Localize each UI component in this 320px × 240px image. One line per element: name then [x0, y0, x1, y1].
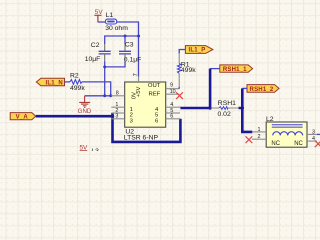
svg-text:LTSR 6-NP: LTSR 6-NP — [124, 134, 159, 141]
pin 1 (left) — [111, 106, 124, 108]
svg-text:0.1μF: 0.1μF — [124, 57, 142, 64]
transformer L2 body — [266, 116, 307, 147]
port RSH1_2 — [247, 85, 279, 93]
wire R2 to ground rail — [82, 82, 111, 96]
port IL1_N — [36, 78, 64, 86]
wire pin2/pin3 tie down around to pin 6 (thick U) — [113, 113, 181, 142]
svg-text:499k: 499k — [70, 85, 85, 92]
svg-text:OUT: OUT — [148, 83, 161, 89]
svg-text:9: 9 — [170, 83, 173, 89]
node junction (125,36) — [124, 35, 127, 38]
pin 8 (left, gray) — [111, 95, 124, 97]
wire L2 pin 3 off page — [317, 133, 320, 135]
no-connect X on L2 pin 4 — [315, 140, 320, 147]
pin 10 (right, gray) — [166, 93, 180, 95]
port IL1_P — [185, 46, 213, 54]
svg-text:IL1_N: IL1_N — [46, 80, 63, 86]
L2 pin 1 — [252, 131, 266, 133]
svg-text:NC: NC — [271, 141, 280, 147]
wire L1 out, corner down to pin 7 — [117, 22, 139, 77]
wire R1 bottom to pin 9 — [178, 73, 180, 87]
svg-text:V_A: V_A — [16, 114, 29, 120]
node junction (104.7,95.8) — [103, 94, 106, 97]
svg-text:30 ohm: 30 ohm — [105, 25, 128, 32]
node junction (104.7,66.9) — [103, 65, 106, 68]
ground GND — [78, 96, 92, 115]
svg-text:2: 2 — [258, 134, 261, 140]
svg-text:4: 4 — [312, 136, 315, 142]
svg-text:NC: NC — [294, 141, 303, 147]
svg-text:1: 1 — [258, 127, 261, 133]
svg-text:10: 10 — [170, 89, 176, 95]
svg-text:0V: 0V — [131, 92, 137, 99]
L2 pin 2 — [252, 138, 266, 140]
inductor L1 — [105, 12, 128, 32]
wire RSH1_1 to shunt junction — [210, 68, 220, 70]
svg-text:5V: 5V — [80, 145, 89, 151]
pin 5 (right) — [166, 112, 180, 114]
pin 3 (left) — [111, 118, 124, 120]
wire C3 top lead — [124, 36, 126, 44]
no-connect X on L2 pin 2 — [246, 136, 253, 143]
capacitor C2 — [85, 42, 111, 63]
wire pin 4 to shunt (thick) — [180, 107, 210, 110]
wire IL1_N to R2 — [65, 81, 71, 83]
node junction (210.1,107.4) — [208, 106, 211, 109]
port V_A — [10, 113, 36, 121]
wire C3 bottom jog to C2 lead — [124, 54, 126, 62]
svg-text:3: 3 — [312, 129, 315, 135]
svg-text:7: 7 — [133, 73, 139, 76]
svg-text:R2: R2 — [70, 72, 79, 79]
wire IL1_P to R1 — [179, 50, 185, 54]
node junction (110.7,95.8) — [109, 94, 112, 97]
svg-text:6: 6 — [170, 114, 173, 120]
svg-text:C3: C3 — [125, 42, 134, 49]
resistor RSH1 0.02 — [211, 100, 239, 118]
pin 2 (left) — [111, 112, 124, 114]
svg-text:RSH1_2: RSH1_2 — [250, 87, 274, 93]
wire V_A to IC pins (thick) — [36, 115, 113, 118]
wire RSH1_2 down to shunt output — [242, 87, 247, 89]
power 5V (top) — [94, 9, 103, 22]
node junction (112.4,115.8) — [111, 115, 114, 118]
svg-text:3: 3 — [115, 114, 118, 120]
svg-text:0.02: 0.02 — [218, 111, 231, 118]
pin 9 (right, gray) — [166, 88, 180, 90]
svg-text:499k: 499k — [181, 67, 196, 74]
svg-text:RSH1_1: RSH1_1 — [223, 67, 247, 73]
no-connect X on pin 10 — [176, 92, 183, 99]
svg-text:IL1_P: IL1_P — [188, 48, 205, 54]
wire shunt to L2 pin 1 (thick) — [239, 108, 253, 132]
port RSH1_1 — [220, 65, 253, 73]
wire top rail to C2 — [105, 36, 139, 44]
svg-text:8: 8 — [116, 90, 119, 96]
pin 4 (right) — [166, 106, 181, 108]
L2 pin 4 — [307, 140, 317, 142]
L2 pin 3 — [307, 133, 317, 135]
resistor R1 — [178, 61, 197, 74]
pin 7 (top, gray) — [138, 77, 140, 82]
ground rail wire — [85, 95, 112, 97]
node junction (138.6,36) — [137, 35, 140, 38]
resistor R2 — [70, 72, 85, 92]
svg-text:REF: REF — [149, 92, 161, 98]
op-amp U2 LTSR 6-NP body — [124, 82, 166, 141]
svg-text:10μF: 10μF — [85, 56, 101, 63]
capacitor C3 — [119, 42, 141, 64]
svg-text:GND: GND — [78, 108, 92, 115]
wire C2 bottom lead down to ground rail — [104, 54, 106, 62]
svg-text:C2: C2 — [91, 42, 100, 49]
node junction (238.3,107.4) — [241, 106, 244, 109]
pin 6 (right) — [166, 118, 181, 120]
wire 5V to L1 — [98, 21, 106, 23]
svg-text:L1: L1 — [106, 12, 114, 19]
svg-text:L3: L3 — [91, 148, 99, 151]
